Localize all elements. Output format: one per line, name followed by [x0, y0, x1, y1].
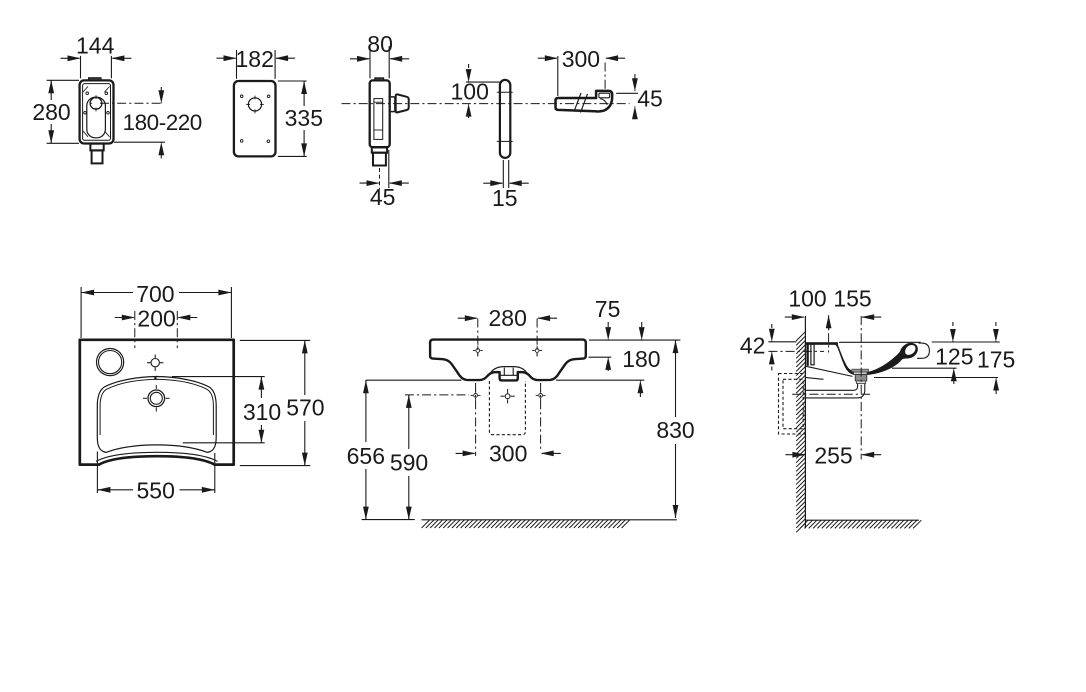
outlet pipe break marks	[574, 93, 581, 112]
svg-text:656: 656	[347, 443, 385, 469]
basin front: drain arch (thin)	[490, 367, 528, 375]
dimension 570	[240, 339, 310, 341]
dimension 335	[278, 80, 307, 82]
side section: ceramic section (filled)	[805, 342, 917, 375]
basin top view: bowl outline	[97, 377, 216, 453]
svg-text:100: 100	[451, 79, 489, 105]
dimension 200	[134, 311, 136, 348]
dimension 300 (elevation)	[463, 451, 476, 457]
dimension 144	[80, 56, 82, 78]
basin top view: overflow notch	[154, 376, 156, 380]
side section: drain fitting	[852, 369, 869, 372]
dimension 100 155	[792, 314, 805, 320]
basin front: drain fitting inner	[503, 368, 505, 376]
wall plate front: screw holes	[240, 95, 243, 98]
dimension 125 175 reference	[932, 341, 1000, 343]
basin front: floor	[422, 519, 677, 521]
dimension 550	[96, 452, 98, 494]
dimension 100	[466, 81, 500, 83]
dimension 656	[362, 519, 415, 521]
dimension 300 (pipe)	[557, 56, 559, 96]
svg-text:700: 700	[136, 281, 174, 307]
dimension 830	[675, 340, 677, 417]
fixing unit front: outer body	[80, 80, 114, 143]
basin top view: overflow circle	[97, 349, 124, 376]
dimension 255	[792, 452, 805, 458]
outlet pipe body	[556, 91, 613, 112]
side section: wall face line	[804, 316, 806, 528]
dimension 180	[641, 322, 643, 327]
fixing unit front: drain circle	[90, 97, 102, 109]
svg-text:200: 200	[137, 306, 175, 332]
dimension 180-220	[114, 141, 165, 143]
dimension 45 (unit side)	[379, 168, 381, 189]
basin front: reference lines	[366, 379, 462, 381]
side section: floor hatch	[800, 520, 808, 528]
svg-text:15: 15	[492, 185, 518, 211]
fixing unit front: corner notches	[83, 87, 88, 93]
fixing unit front: outlet spigot	[90, 144, 103, 151]
side section: underside lines	[806, 366, 853, 376]
basin front elevation: outline	[430, 340, 586, 381]
dimension 125	[952, 322, 954, 326]
svg-text:300: 300	[562, 46, 600, 72]
basin top view: inner front edge line	[96, 452, 218, 461]
svg-text:155: 155	[833, 286, 871, 312]
dimension 75	[607, 322, 609, 327]
side section: deck top (thick)	[805, 342, 838, 344]
svg-text:300: 300	[489, 441, 527, 467]
basin top view: tap hole	[151, 359, 159, 367]
dimension 42	[768, 341, 796, 343]
dimension 45 (pipe)	[616, 92, 638, 94]
fixing unit side: knob flange	[390, 97, 395, 112]
outlet pipe inner collar	[599, 93, 610, 98]
side section: drain centerline	[860, 316, 862, 460]
fixing unit front: screw holes	[86, 92, 89, 95]
basin front: centerlines	[477, 319, 479, 357]
svg-text:280: 280	[489, 305, 527, 331]
wall plate front: center hole	[248, 98, 261, 111]
svg-text:42: 42	[740, 333, 766, 359]
fixing unit side: outlet spigot	[372, 147, 387, 152]
dimension 590	[408, 395, 410, 449]
basin top view: bowl inner line	[100, 379, 213, 435]
basin top view: drain	[148, 390, 165, 407]
svg-text:180-220: 180-220	[123, 110, 202, 135]
svg-text:175: 175	[977, 347, 1015, 373]
svg-text:335: 335	[285, 105, 323, 131]
basin front: concealed trap dashed box	[489, 381, 525, 435]
svg-text:255: 255	[814, 443, 852, 469]
dimension 280 (elevation)	[465, 315, 478, 321]
side section: pipe centerline	[792, 393, 870, 395]
fixing unit side: inner channel	[374, 99, 383, 140]
svg-text:45: 45	[637, 85, 663, 111]
side section: tap centerline	[828, 316, 830, 353]
basin front: fixing holes (top)	[476, 349, 480, 353]
dimension 175	[995, 322, 997, 326]
svg-text:310: 310	[243, 399, 281, 425]
dimension 15	[502, 160, 504, 188]
side section: front rim rounded end	[917, 343, 929, 358]
basin front: fixing holes (lower)	[474, 394, 478, 398]
side section: wall hatch	[796, 332, 805, 341]
dimension 700	[80, 287, 82, 338]
side section: concealed box dashed inner	[783, 379, 803, 428]
fixing unit front: inner oval	[87, 97, 106, 138]
svg-text:144: 144	[76, 32, 115, 58]
dimension 182	[236, 50, 238, 79]
svg-text:80: 80	[367, 31, 393, 57]
dimension 280	[47, 79, 79, 81]
svg-text:830: 830	[656, 417, 694, 443]
svg-text:180: 180	[622, 346, 660, 372]
wall plate front: plate	[234, 81, 276, 156]
basin top view: outer body	[80, 340, 234, 465]
centerline view A (fixing unit front)	[100, 102, 164, 104]
centerline views C-E	[342, 103, 630, 105]
side section: concealed box dashed outer	[779, 374, 806, 435]
side section: outlet pipe elbow	[806, 384, 865, 398]
wall plate side: screw hole marks	[497, 91, 513, 93]
fixing unit side: top tab	[375, 78, 384, 81]
side section: wall fixing bracket	[806, 344, 808, 366]
svg-text:280: 280	[32, 99, 70, 125]
svg-text:125: 125	[935, 344, 973, 370]
dimension 80	[369, 46, 371, 78]
svg-text:182: 182	[236, 46, 274, 72]
dimension 310	[172, 376, 265, 378]
svg-text:570: 570	[286, 395, 324, 421]
fixing unit front: inner plate	[83, 84, 111, 141]
fixing unit front: top tab	[89, 78, 101, 81]
wall plate side: plate	[500, 80, 510, 158]
side section: floor line	[805, 519, 919, 521]
svg-text:45: 45	[370, 184, 396, 210]
svg-text:100: 100	[788, 286, 826, 312]
svg-text:590: 590	[390, 450, 428, 476]
svg-text:75: 75	[595, 296, 621, 322]
svg-text:550: 550	[137, 478, 175, 504]
fixing unit side: body	[370, 80, 390, 147]
side section: basin top reference line	[839, 341, 921, 343]
fixing unit side: knob	[396, 94, 409, 112]
